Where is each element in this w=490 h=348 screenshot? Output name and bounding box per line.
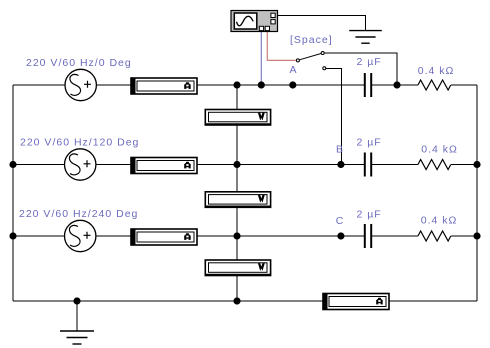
svg-text:0.4 kΩ: 0.4 kΩ — [421, 215, 458, 227]
svg-text:0.4 kΩ: 0.4 kΩ — [418, 65, 455, 77]
svg-text:220 V/60 Hz/0 Deg: 220 V/60 Hz/0 Deg — [26, 57, 132, 69]
svg-text:C: C — [336, 215, 345, 227]
svg-text:2 µF: 2 µF — [357, 56, 382, 68]
svg-text:220 V/60 Hz/240 Deg: 220 V/60 Hz/240 Deg — [19, 208, 138, 220]
svg-text:0.4 kΩ: 0.4 kΩ — [421, 144, 458, 156]
svg-text:2 µF: 2 µF — [357, 209, 382, 221]
svg-text:B: B — [336, 144, 344, 156]
svg-text:[Space]: [Space] — [290, 34, 333, 46]
svg-text:A: A — [290, 64, 298, 76]
svg-text:220 V/60 Hz/120 Deg: 220 V/60 Hz/120 Deg — [20, 136, 139, 148]
svg-text:2 µF: 2 µF — [357, 136, 382, 148]
